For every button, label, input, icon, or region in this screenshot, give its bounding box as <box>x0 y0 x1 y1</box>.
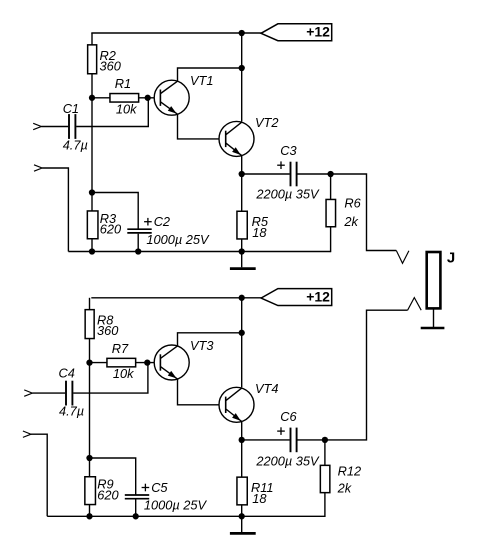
node collector junction ch1 <box>239 65 245 71</box>
wire bias rail ch1 <box>91 98 93 193</box>
svg-text:VT2: VT2 <box>255 115 278 130</box>
wire top rail ch1 <box>91 32 261 34</box>
input arrow in2 ch1 <box>34 165 42 171</box>
svg-text:VT4: VT4 <box>255 381 278 396</box>
svg-text:C5: C5 <box>151 480 168 495</box>
wire VT2 emitter to output node <box>241 156 243 174</box>
svg-text:C4: C4 <box>59 366 75 381</box>
wire bias rail ch2 <box>89 363 91 458</box>
node emitter junction ch1 <box>239 171 245 177</box>
input arrow in1 ch2 <box>24 390 32 396</box>
svg-text:360: 360 <box>100 58 122 73</box>
resistor R9 620 <box>85 458 120 516</box>
resistor R12 2k <box>320 440 361 517</box>
svg-text:10k: 10k <box>116 101 137 116</box>
wire output ch2 to jack <box>325 310 408 440</box>
svg-text:R12: R12 <box>338 464 361 479</box>
wire VT1 emitter to VT2 base <box>178 114 226 139</box>
capacitor C1 4.7u <box>63 101 88 153</box>
wire input2 to ground rail ch2 <box>31 434 47 516</box>
wire C1 to base node <box>76 98 148 127</box>
resistor R6 2k <box>326 174 362 252</box>
output arrow ch2 <box>408 298 422 311</box>
svg-text:C1: C1 <box>63 101 79 116</box>
svg-text:18: 18 <box>252 225 267 240</box>
svg-text:2k: 2k <box>343 214 358 229</box>
ground symbol ch2 <box>230 516 256 533</box>
capacitor C6 2200u 35V <box>242 409 325 469</box>
power flag +12 ch2 <box>261 289 332 306</box>
node top rail junction ch1 <box>239 30 245 36</box>
svg-text:1000µ 25V: 1000µ 25V <box>146 232 210 247</box>
node C5 bottom junction <box>133 513 139 519</box>
node base junction ch2 <box>144 359 150 365</box>
wire ground rail ch2 <box>47 515 325 517</box>
ground symbol ch1 <box>230 252 256 269</box>
node bias top junction ch2 <box>86 359 92 365</box>
wire input1 to C1 <box>41 126 68 128</box>
svg-text:R7: R7 <box>112 341 129 356</box>
input arrow in1 ch1 <box>33 123 41 129</box>
node output junction ch2 <box>322 437 328 443</box>
svg-text:2k: 2k <box>337 481 352 496</box>
wire input2 to ground rail ch1 <box>42 168 68 252</box>
transistor VT3 <box>154 338 213 380</box>
node bias bottom junction ch2 <box>86 455 92 461</box>
svg-text:10k: 10k <box>113 366 134 381</box>
node base junction ch1 <box>145 95 151 101</box>
node C2 bottom junction <box>135 248 141 254</box>
svg-text:18: 18 <box>252 491 267 506</box>
resistor R11 18 <box>237 440 274 516</box>
node ground junction ch1 <box>239 248 245 254</box>
node bias top junction ch1 <box>89 95 95 101</box>
capacitor C3 2200u 35V <box>242 143 331 201</box>
capacitor C5 1000u 25V <box>90 458 208 516</box>
svg-text:C3: C3 <box>280 143 296 158</box>
svg-text:4.7µ: 4.7µ <box>59 404 84 419</box>
svg-text:620: 620 <box>97 487 119 502</box>
wire input1 to C4 <box>32 392 65 394</box>
wire ground rail ch1 <box>68 251 330 253</box>
svg-text:C2: C2 <box>154 214 170 229</box>
node top rail junction ch2 <box>239 295 245 301</box>
jack J connector <box>421 250 456 329</box>
svg-text:+12: +12 <box>306 289 330 305</box>
wire C4 to base node <box>73 363 148 394</box>
wire VT4 emitter to output node <box>241 422 243 440</box>
node collector junction ch2 <box>239 330 245 336</box>
svg-text:4.7µ: 4.7µ <box>63 138 88 153</box>
node R3 bottom junction <box>89 248 95 254</box>
svg-text:VT1: VT1 <box>190 73 213 88</box>
wire output ch1 to jack <box>331 174 397 251</box>
node bias bottom junction ch1 <box>89 189 95 195</box>
transistor VT4 <box>219 381 278 422</box>
capacitor C2 1000u 25V <box>92 193 210 252</box>
wire VT1 collector to rail <box>178 68 242 81</box>
wire top rail ch2 <box>91 297 261 299</box>
capacitor C4 4.7u <box>59 366 85 419</box>
wire VT3 collector to rail <box>178 333 242 346</box>
wire main rail ch1 <box>241 33 243 122</box>
svg-text:R6: R6 <box>344 196 361 211</box>
node output junction ch1 <box>327 171 333 177</box>
svg-text:1000µ 25V: 1000µ 25V <box>144 498 208 513</box>
resistor R5 18 <box>237 174 269 252</box>
svg-text:360: 360 <box>97 323 119 338</box>
svg-text:C6: C6 <box>280 409 297 424</box>
svg-text:R1: R1 <box>115 76 131 91</box>
resistor R7 10k <box>90 341 161 381</box>
svg-text:620: 620 <box>100 222 122 237</box>
node ground junction ch2 <box>239 513 245 519</box>
svg-text:+12: +12 <box>306 24 330 40</box>
wire VT3 emitter to VT4 base <box>178 379 226 405</box>
resistor R1 10k <box>92 76 160 116</box>
wire main rail ch2 <box>241 298 243 388</box>
svg-text:2200µ 35V: 2200µ 35V <box>255 454 320 469</box>
svg-text:2200µ 35V: 2200µ 35V <box>255 186 320 201</box>
resistor R8 360 <box>85 298 119 363</box>
svg-text:J: J <box>447 250 455 267</box>
input arrow in2 ch2 <box>23 431 31 437</box>
node R9 bottom junction <box>86 513 92 519</box>
resistor R2 360 <box>88 33 122 98</box>
transistor VT1 <box>154 73 213 115</box>
output arrow ch1 <box>396 251 409 264</box>
svg-text:VT3: VT3 <box>190 338 213 353</box>
node emitter junction ch2 <box>239 437 245 443</box>
transistor VT2 <box>219 115 278 156</box>
resistor R3 620 <box>87 193 122 252</box>
power flag +12 ch1 <box>261 24 332 41</box>
